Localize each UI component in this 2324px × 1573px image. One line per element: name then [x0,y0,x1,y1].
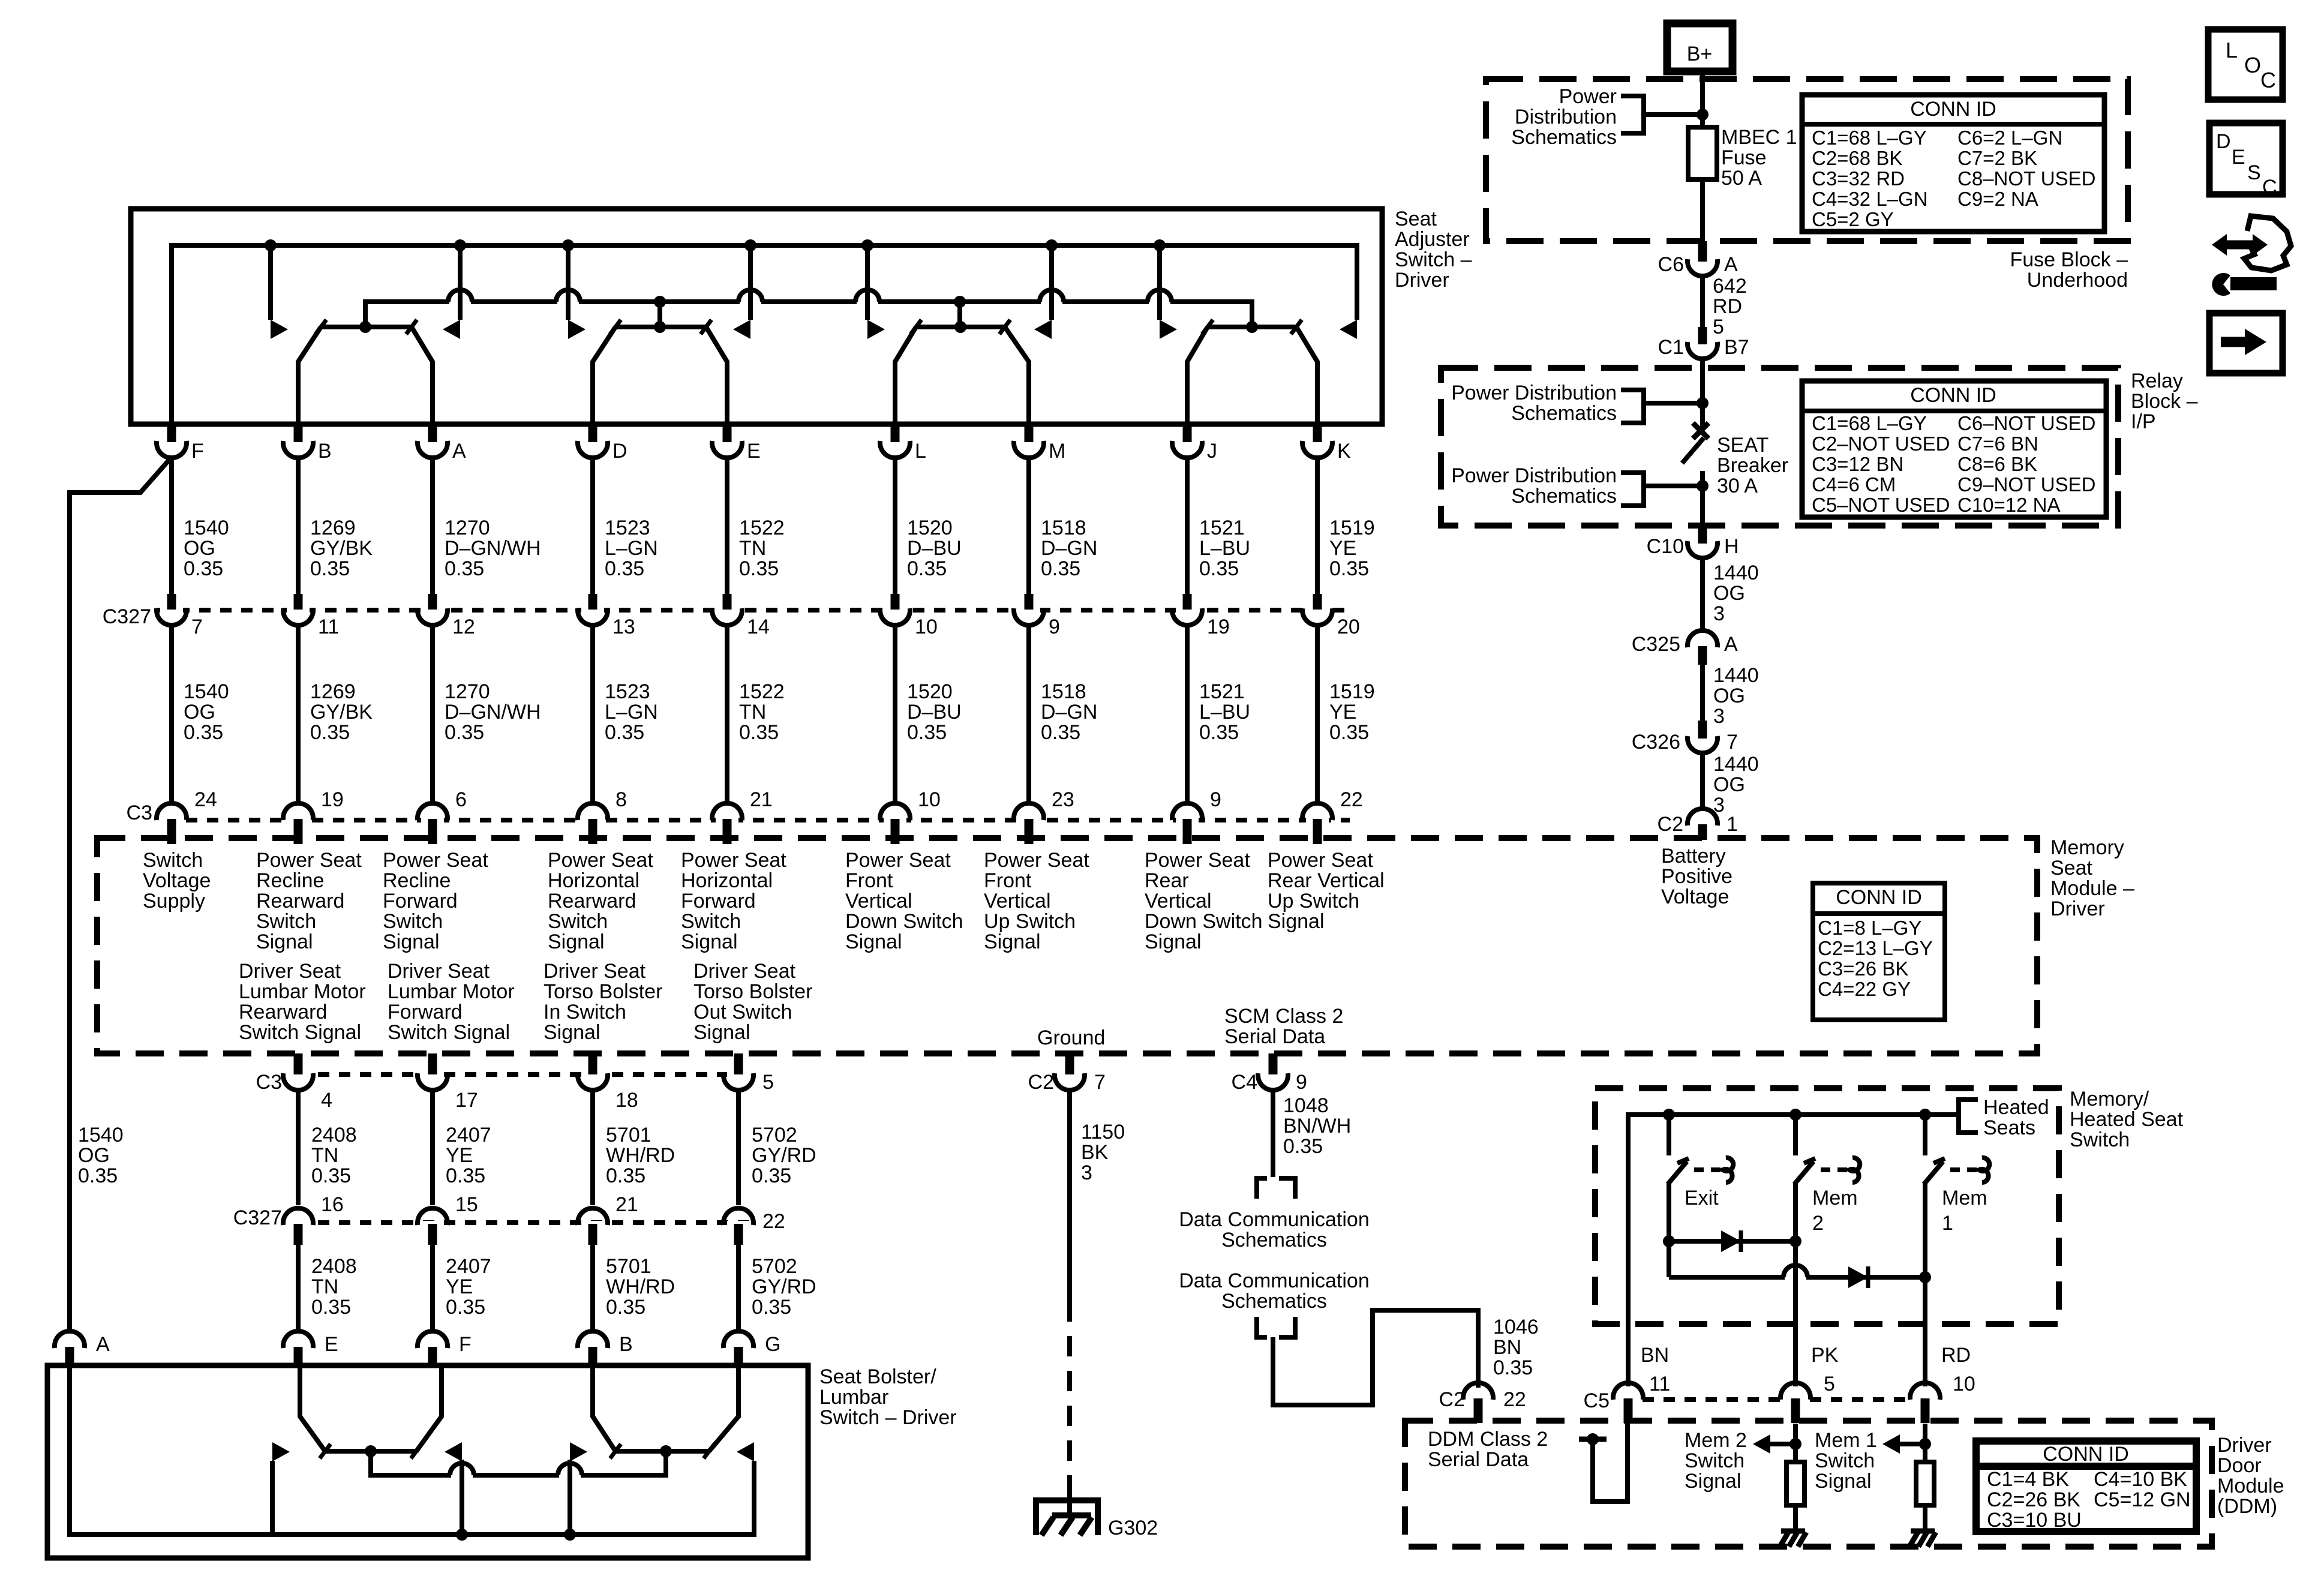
svg-text:OG: OG [1713,773,1745,796]
mem 1 pull-down resistor [1923,1424,1927,1462]
svg-text:Schematics: Schematics [1221,1229,1327,1251]
wire hop at x=1753 [1041,299,1062,305]
svg-text:C8=6 BK: C8=6 BK [1957,453,2037,475]
module connector C3 pin 17 (lumbar) [421,1070,444,1077]
svg-text:0.35: 0.35 [752,1296,791,1319]
svg-text:C2=13 L–GY: C2=13 L–GY [1818,937,1933,959]
svg-text:Switch: Switch [383,910,443,933]
connector C3 pin 8 [581,816,604,824]
memory/heated seat switch dashed box [1595,1088,2059,1324]
connector C327 pin 21 (lumbar) [581,1221,604,1229]
svg-text:4: 4 [321,1089,332,1112]
connector C327 pin 13 [581,605,604,613]
wire 1150 BK 3 to ground [1067,1091,1072,1301]
svg-text:C4=10 BK: C4=10 BK [2094,1468,2187,1491]
svg-text:Heated Seat: Heated Seat [2070,1108,2184,1131]
svg-text:5701: 5701 [606,1255,651,1278]
bolster wire hop at x=770 [451,1472,473,1478]
svg-text:Block –: Block – [2131,390,2198,413]
connector C10 pin H [1691,538,1714,545]
svg-text:Driver: Driver [2217,1434,2272,1457]
driver door module (DDM) dashed box [1405,1421,2212,1547]
CONN ID table (DDM) [1976,1441,2196,1532]
mem2 switch wire down to pin 5 [1793,1183,1798,1386]
svg-text:In Switch: In Switch [544,1001,626,1023]
wire 2408 TN from C3 to C327 [296,1091,301,1205]
bolster switch group pins x=500,736 [325,1449,416,1454]
svg-text:5: 5 [762,1071,774,1094]
bolster switch pin B [581,1344,604,1352]
svg-text:0.35: 0.35 [752,1164,791,1187]
svg-text:5701: 5701 [606,1124,651,1146]
wire 1518 D–GN from pin M to C327 [1026,459,1031,594]
svg-text:Forward: Forward [383,890,458,912]
wire 5701 WH/RD from C327 to bolster switch [590,1245,595,1329]
connector C1 pin B7 [1691,338,1714,346]
svg-text:Memory: Memory [2050,836,2124,859]
svg-text:D–BU: D–BU [907,701,962,724]
svg-text:1270: 1270 [445,680,490,703]
svg-text:F: F [459,1333,472,1356]
svg-text:10: 10 [915,616,938,638]
svg-text:22: 22 [1503,1388,1526,1411]
connector C327 pin 20 [1306,605,1329,613]
svg-text:1519: 1519 [1329,680,1375,703]
mem1 switch wire down to pin 10 [1923,1183,1927,1386]
svg-text:C: C [2262,176,2277,199]
svg-text:0.35: 0.35 [1493,1356,1533,1379]
serial data node terminal [1579,1437,1607,1442]
svg-text:OG: OG [78,1144,110,1167]
svg-text:19: 19 [1207,616,1230,638]
svg-text:C327: C327 [233,1206,282,1229]
svg-text:C2: C2 [1028,1071,1054,1094]
svg-text:Heated: Heated [1983,1096,2049,1119]
connector C5 pin 10 [1914,1395,1936,1403]
svg-text:0.35: 0.35 [184,557,223,580]
svg-text:Horizontal: Horizontal [548,869,639,892]
svg-text:Signal: Signal [1685,1470,1742,1493]
svg-text:L–BU: L–BU [1199,701,1250,724]
svg-text:B+: B+ [1687,43,1713,65]
seat adjuster switch - driver box [131,209,1382,424]
junction dots on heated switch bus [1663,1109,1675,1121]
svg-text:0.35: 0.35 [1329,721,1369,744]
svg-text:Front: Front [984,869,1032,892]
svg-text:1: 1 [1727,813,1738,836]
svg-text:1540: 1540 [78,1124,124,1146]
lumbar C327 dashed line [318,1220,757,1225]
svg-text:C6=2 L–GN: C6=2 L–GN [1957,127,2062,149]
svg-text:C5=12 GN: C5=12 GN [2094,1488,2191,1511]
svg-text:C3=32 RD: C3=32 RD [1812,167,1905,190]
svg-text:C: C [2260,68,2276,92]
svg-text:1540: 1540 [184,680,229,703]
svg-text:0.35: 0.35 [78,1164,118,1187]
bolster switch pin E [287,1344,310,1352]
LOC legend box [2208,29,2283,100]
diode from exit to mem2 line [1663,1235,1675,1247]
switch group pins x=988,1212 [615,325,706,329]
svg-text:C7=2 BK: C7=2 BK [1957,147,2037,169]
wire 2408 TN from C327 to bolster switch [296,1245,301,1329]
connector C3 pin 21 [716,816,738,824]
svg-text:22: 22 [1340,788,1363,811]
svg-text:A: A [452,440,466,463]
svg-text:C1: C1 [1658,336,1684,359]
svg-text:Seat Bolster/: Seat Bolster/ [819,1365,936,1388]
svg-text:0.35: 0.35 [1041,721,1080,744]
svg-text:13: 13 [612,616,635,638]
svg-text:18: 18 [615,1089,638,1112]
battery feed B+ terminal box [1667,23,1733,71]
svg-text:1518: 1518 [1041,517,1086,539]
svg-text:Lumbar Motor: Lumbar Motor [239,980,366,1003]
bus junction and fixed contact at x=1933 [1154,239,1166,251]
svg-text:C6: C6 [1658,253,1684,276]
svg-text:Battery: Battery [1661,845,1726,867]
svg-text:1440: 1440 [1713,753,1759,776]
svg-text:C2: C2 [1658,813,1683,836]
svg-text:Switch Signal: Switch Signal [388,1021,510,1044]
wire hop at x=1933 [1149,299,1170,305]
svg-text:Signal: Signal [383,930,440,953]
connector C327 pin 16 (lumbar) [287,1221,310,1229]
svg-text:Seat: Seat [1395,208,1437,230]
bus junction and fixed contact at x=1446 [861,239,873,251]
svg-text:C325: C325 [1632,633,1680,656]
wire 1046 BN 0.35 serial data to DDM [1273,1310,1478,1405]
svg-text:1522: 1522 [739,680,785,703]
svg-text:TN: TN [311,1144,338,1167]
svg-text:Power Distribution: Power Distribution [1451,382,1617,404]
lumbar C3 dashed line [318,1072,757,1077]
svg-text:17: 17 [455,1089,478,1112]
svg-text:2: 2 [1812,1212,1824,1235]
module connector C3 pin 4 (lumbar) [287,1070,310,1077]
svg-text:Data Communication: Data Communication [1179,1208,1369,1231]
switch supply bus inside heated seat switch [1628,1115,1957,1386]
wire 1522 TN from pin E to C327 [725,459,729,594]
svg-text:C1=68 L–GY: C1=68 L–GY [1812,412,1927,434]
svg-text:Mem 1: Mem 1 [1815,1429,1877,1452]
bolster switch pin A connector [58,1344,81,1352]
svg-text:WH/RD: WH/RD [606,1144,675,1167]
wire 1440 OG 3 (C325-C326) [1700,665,1705,721]
svg-text:YE: YE [446,1144,473,1167]
connector C327 dashed line [157,608,1350,613]
svg-text:OG: OG [1713,582,1745,605]
svg-text:1521: 1521 [1199,517,1245,539]
svg-text:5702: 5702 [752,1255,797,1278]
wire: switch supply bus (top) [172,245,1357,424]
svg-text:C5–NOT USED: C5–NOT USED [1812,494,1950,516]
mem 1 switch signal arrow [1919,1438,1931,1450]
svg-text:Rear: Rear [1145,869,1189,892]
connector C3 pin 22 [1306,816,1329,824]
svg-text:Signal: Signal [1145,930,1202,953]
svg-text:0.35: 0.35 [1199,721,1239,744]
DDM internal wire from pin 11 to serial data node [1593,1424,1628,1502]
svg-text:Rearward: Rearward [548,890,636,912]
svg-text:0.35: 0.35 [1041,557,1080,580]
wire 1519 YE from C327 to C3 [1315,626,1320,802]
svg-text:2408: 2408 [311,1255,357,1278]
wire 1520 D–BU from pin L to C327 [893,459,897,594]
svg-text:L–GN: L–GN [605,701,658,724]
svg-text:22: 22 [762,1210,785,1233]
svg-text:G302: G302 [1108,1517,1158,1539]
svg-text:7: 7 [1727,731,1738,754]
svg-text:OG: OG [184,537,215,560]
wire 1270 D–GN/WH from C327 to C3 [430,626,435,802]
svg-text:WH/RD: WH/RD [606,1275,675,1298]
svg-text:0.35: 0.35 [605,557,644,580]
svg-text:15: 15 [455,1193,478,1216]
svg-text:Driver Seat: Driver Seat [693,960,796,983]
svg-text:Power Seat: Power Seat [256,849,362,872]
fuse MBEC 1 50 A [1700,115,1705,127]
svg-text:1520: 1520 [907,517,953,539]
svg-text:Power Seat: Power Seat [984,849,1089,872]
wire battery feed down from B+ [1700,71,1705,127]
svg-text:B: B [619,1333,633,1356]
svg-text:Power Seat: Power Seat [845,849,951,872]
bolster mid bus connecting switch commons [371,1451,666,1475]
wire 1440 OG 3 (C326-C2) [1700,754,1705,807]
svg-text:Torso Bolster: Torso Bolster [544,980,662,1003]
wire 1523 L–GN from pin D to C327 [590,459,595,594]
svg-text:C1=68 L–GY: C1=68 L–GY [1812,127,1927,149]
svg-text:C7=6 BN: C7=6 BN [1957,433,2038,455]
svg-text:Ground: Ground [1037,1026,1105,1049]
svg-text:Forward: Forward [681,890,756,912]
connector pin J of seat adjuster switch [1176,437,1199,445]
svg-text:C5: C5 [1584,1389,1610,1412]
svg-text:Power Seat: Power Seat [1145,849,1250,872]
seat bolster/lumbar switch - driver box [47,1365,808,1558]
svg-text:Data Communication: Data Communication [1179,1269,1369,1292]
svg-text:0.35: 0.35 [310,721,350,744]
svg-text:Switch Signal: Switch Signal [239,1021,361,1044]
connector C3 pin 10 [884,816,906,824]
svg-text:YE: YE [1329,701,1356,724]
svg-text:CONN ID: CONN ID [1836,886,1922,909]
svg-text:Supply: Supply [143,890,205,912]
svg-text:C4=22 GY: C4=22 GY [1818,978,1911,1000]
svg-text:Switch: Switch [681,910,741,933]
svg-text:2407: 2407 [446,1124,491,1146]
svg-text:1150: 1150 [1081,1121,1125,1143]
svg-text:D–GN/WH: D–GN/WH [445,701,541,724]
connector pin A of seat adjuster switch [421,437,444,445]
svg-text:B7: B7 [1724,336,1749,359]
svg-text:3: 3 [1081,1161,1092,1184]
wire hop over mem2 wire [1785,1274,1806,1280]
svg-text:L–GN: L–GN [605,537,658,560]
wire 5702 GY/RD from C327 to bolster switch [736,1245,741,1329]
svg-text:0.35: 0.35 [1283,1135,1323,1158]
svg-text:C4: C4 [1232,1071,1257,1094]
off-page reference symbol (to data communication) [1257,1178,1267,1199]
bolster fixed contact at x=454 [270,1461,275,1535]
svg-text:PK: PK [1811,1344,1839,1367]
connector pin D of seat adjuster switch [581,437,604,445]
connector C327 pin 10 [884,605,906,613]
svg-text:C10: C10 [1647,535,1684,558]
svg-text:BN: BN [1641,1344,1669,1367]
svg-text:7: 7 [191,616,203,638]
svg-text:TN: TN [739,537,766,560]
wire 1269 GY/BK from pin B to C327 [296,459,301,594]
svg-text:Schematics: Schematics [1221,1290,1327,1313]
svg-text:Fuse Block –: Fuse Block – [2010,248,2128,271]
svg-text:Driver Seat: Driver Seat [544,960,646,983]
svg-text:Vertical: Vertical [845,890,912,912]
svg-text:Signal: Signal [984,930,1041,953]
svg-text:GY/RD: GY/RD [752,1275,816,1298]
svg-text:1: 1 [1942,1212,1953,1235]
svg-text:0.35: 0.35 [446,1296,485,1319]
svg-text:Module: Module [2217,1475,2284,1497]
connector pin L of seat adjuster switch [884,437,906,445]
svg-text:Signal: Signal [845,930,902,953]
svg-text:16: 16 [321,1193,344,1216]
svg-text:C3=12 BN: C3=12 BN [1812,453,1903,475]
svg-text:Module –: Module – [2050,877,2134,900]
svg-text:Switch –: Switch – [1395,248,1472,271]
svg-text:Mem: Mem [1812,1187,1858,1209]
bus junction and fixed contact at x=947 [562,239,574,251]
momentary switch Mem 1 [1923,1115,1927,1155]
svg-text:DDM Class 2: DDM Class 2 [1428,1428,1548,1451]
wire 2407 YE from C327 to bolster switch [430,1245,435,1329]
exit switch lower wire [1667,1183,1671,1277]
svg-text:C9=2 NA: C9=2 NA [1957,188,2038,210]
svg-text:Recline: Recline [256,869,324,892]
svg-text:7: 7 [1094,1071,1106,1094]
connector pin K of seat adjuster switch [1306,437,1329,445]
svg-text:Down Switch: Down Switch [1145,910,1263,933]
reference bracket (relay top) [1621,390,1644,423]
reference bracket to power distribution [1621,96,1644,133]
module connector C4 pin 9 (serial data) [1262,1070,1284,1077]
svg-text:0.35: 0.35 [907,557,947,580]
wire 1518 D–GN from C327 to C3 [1026,626,1031,802]
wire 1269 GY/BK from C327 to C3 [296,626,301,802]
svg-text:Recline: Recline [383,869,451,892]
svg-text:TN: TN [739,701,766,724]
svg-text:0.35: 0.35 [184,721,223,744]
svg-text:GY/RD: GY/RD [752,1144,816,1167]
svg-text:Mem 2: Mem 2 [1685,1429,1747,1452]
wire 1048 BN/WH 0.35 [1271,1091,1275,1177]
svg-text:C3: C3 [256,1071,282,1094]
bolster fixed contact arrow for pin G [737,1442,754,1461]
CONN ID table (relay block) [1802,381,2106,517]
momentary switch Mem 2 [1793,1115,1798,1155]
svg-text:Mem: Mem [1942,1187,1987,1209]
svg-text:0.35: 0.35 [605,721,644,744]
svg-text:C9–NOT USED: C9–NOT USED [1957,473,2095,496]
connector C326 pin 7 [1691,733,1714,740]
svg-text:21: 21 [615,1193,638,1216]
svg-text:C3=26 BK: C3=26 BK [1818,957,1908,980]
svg-text:GY/BK: GY/BK [310,537,373,560]
svg-text:Driver: Driver [1395,269,1449,292]
bolster fixed contact at x=770 [460,1461,464,1535]
svg-text:23: 23 [1052,788,1074,811]
svg-text:5: 5 [1824,1373,1835,1395]
svg-text:K: K [1337,440,1351,463]
wire 1540 OG from pin F to bolster switch pin A [70,457,172,1329]
wire 1540 OG from C327 to C3 [169,626,174,802]
svg-text:1440: 1440 [1713,562,1759,584]
svg-text:Serial Data: Serial Data [1224,1025,1325,1048]
svg-text:C5=2 GY: C5=2 GY [1812,208,1894,230]
svg-text:C10=12 NA: C10=12 NA [1957,494,2061,516]
svg-text:Voltage: Voltage [1661,885,1729,908]
svg-text:Signal: Signal [548,930,605,953]
junction dot at fuse feed [1697,109,1709,121]
junction dots on lower bus [654,296,666,308]
svg-text:1518: 1518 [1041,680,1086,703]
svg-text:10: 10 [918,788,941,811]
svg-text:642: 642 [1713,275,1747,298]
connector C2 pin 1 [1691,821,1714,829]
ground (mem 1) [1911,1529,1935,1534]
mem 2 pull-down resistor [1793,1424,1798,1462]
svg-text:Distribution: Distribution [1515,106,1617,128]
svg-text:1540: 1540 [184,517,229,539]
wire 1440 OG 3 (C10-C325) [1700,559,1705,629]
svg-text:Switch: Switch [548,910,608,933]
svg-text:0.35: 0.35 [445,721,484,744]
svg-text:A: A [96,1333,110,1356]
svg-text:C8–NOT USED: C8–NOT USED [1957,167,2095,190]
svg-text:TN: TN [311,1275,338,1298]
svg-text:Signal: Signal [681,930,738,953]
diode to mem1 line [1848,1266,1868,1288]
svg-text:2408: 2408 [311,1124,357,1146]
svg-text:C2: C2 [1439,1388,1465,1411]
svg-text:Schematics: Schematics [1511,126,1617,149]
svg-text:Power: Power [1559,85,1617,108]
svg-text:M: M [1049,440,1065,463]
svg-text:Underhood: Underhood [2027,269,2128,292]
connector C5 pin 11 [1617,1395,1640,1403]
bolster fixed contact at x=950 [568,1461,572,1535]
wire hop at x=1251 [740,299,761,305]
svg-text:0.35: 0.35 [739,557,779,580]
svg-text:19: 19 [321,788,344,811]
svg-text:1521: 1521 [1199,680,1245,703]
svg-text:C4=6 CM: C4=6 CM [1812,473,1896,496]
connector C327 pin 19 [1176,605,1199,613]
module connector C3 pin 5 (lumbar) [727,1070,750,1077]
svg-text:BN/WH: BN/WH [1283,1115,1351,1137]
svg-text:L: L [2226,38,2238,62]
svg-text:0.35: 0.35 [1199,557,1239,580]
svg-text:1269: 1269 [310,517,356,539]
svg-text:C326: C326 [1632,731,1680,754]
svg-text:Driver Seat: Driver Seat [239,960,341,983]
svg-text:Torso Bolster: Torso Bolster [693,980,812,1003]
svg-text:Vertical: Vertical [984,890,1051,912]
switch group pins x=1492,1715 [916,325,1005,329]
wire 5702 GY/RD from C3 to C327 [736,1091,741,1205]
svg-text:BK: BK [1081,1141,1109,1164]
